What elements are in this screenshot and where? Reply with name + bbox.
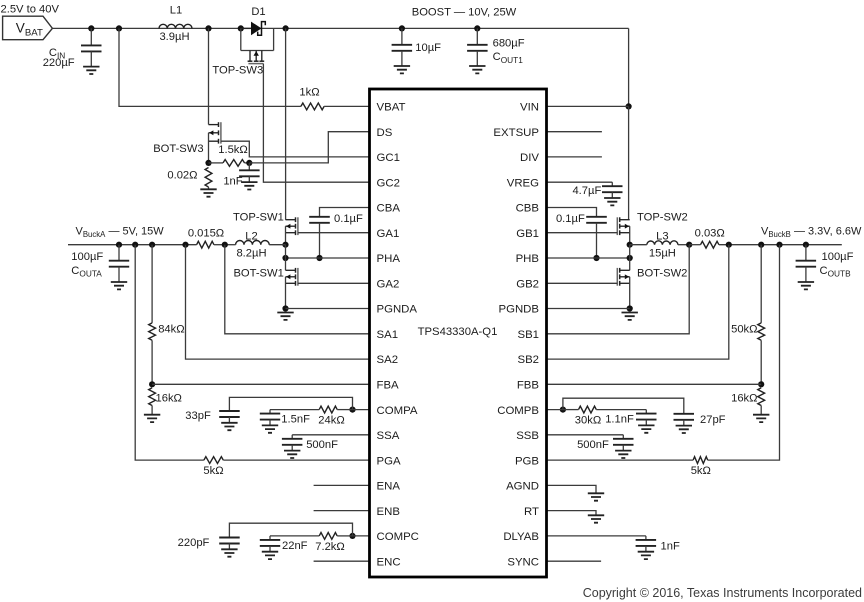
ground: 33pF [221, 423, 237, 430]
svg-text:10µF: 10µF [415, 42, 441, 54]
svg-text:GA1: GA1 [377, 228, 400, 240]
wire: CBB pin to bootstrap cap B [547, 208, 597, 217]
junction: COUTA tap [116, 242, 122, 248]
junction: SA1 sense tap [222, 242, 228, 248]
capacitor CIN 220uF input cap [43, 28, 102, 68]
transistor BOT-SW1 buck A low-side [233, 268, 297, 286]
svg-text:DS: DS [377, 127, 393, 139]
ground: AGND analog ground [588, 493, 604, 500]
svg-text:D1: D1 [251, 6, 265, 18]
transistor TOP-SW1 buck A high-side [233, 212, 298, 236]
svg-text:33pF: 33pF [185, 410, 211, 422]
junction: SA2 sense tap [182, 242, 188, 248]
wire: FBB pin [547, 383, 762, 385]
svg-text:27pF: 27pF [700, 414, 726, 426]
svg-text:0.1µF: 0.1µF [334, 213, 363, 225]
op-amp U1 controller IC TPS43330A-Q1 with pin labels [370, 89, 547, 577]
svg-text:84kΩ: 84kΩ [158, 323, 184, 335]
svg-text:0.02Ω: 0.02Ω [167, 169, 197, 181]
resistor 30k-ohm COMPB [563, 406, 646, 426]
wire: buck A output rail [68, 244, 197, 246]
wire: COMPA top branch to 33pF [229, 397, 352, 411]
junction: PGNDB node [627, 305, 633, 311]
wire: DIV pin stub [547, 156, 602, 158]
svg-text:GB2: GB2 [516, 279, 539, 291]
svg-text:VIN: VIN [520, 102, 539, 114]
wire: VBuckB to PGB resistor [708, 245, 780, 460]
svg-text:1nF: 1nF [661, 541, 680, 553]
wire: boost rail down to TOP-SW2 drain [628, 106, 630, 219]
resistor 0.03-ohm buck B sense [689, 227, 842, 248]
junction: COMPB node [560, 407, 566, 413]
wire: TOP-SW1 source to phase node [285, 226, 287, 245]
svg-text:COMPC: COMPC [377, 531, 419, 543]
wire: COMPC pin to node [353, 535, 370, 537]
junction: DS filter node [246, 160, 252, 166]
junction: PHA row at phase vertical [282, 255, 288, 261]
inductor L1 3.9uH boost inductor [159, 5, 192, 44]
wire: ENB pin stub [314, 510, 370, 512]
capacitor 4.7uF VREG bypass [547, 182, 623, 205]
svg-text:0.1µF: 0.1µF [556, 213, 585, 225]
junction: PHB row at phase vertical [627, 255, 633, 261]
wire: VBAT top rail from tag to boost rail corner at VIN [52, 27, 628, 29]
svg-text:5kΩ: 5kΩ [203, 465, 223, 477]
svg-text:L1: L1 [170, 5, 182, 17]
svg-text:1.5kΩ: 1.5kΩ [218, 144, 248, 156]
wire: RT pin to ground [547, 511, 597, 516]
svg-text:EXTSUP: EXTSUP [493, 127, 539, 139]
svg-text:BOOST — 10V, 25W: BOOST — 10V, 25W [412, 6, 517, 18]
svg-text:GC2: GC2 [377, 177, 400, 189]
svg-text:30kΩ: 30kΩ [575, 414, 601, 426]
wire: ENC pin stub [314, 560, 370, 562]
svg-text:15µH: 15µH [649, 248, 676, 260]
svg-text:VBAT: VBAT [377, 102, 406, 114]
junction: FBA divider tap [149, 242, 155, 248]
wire: PHA pin from phase node [286, 257, 370, 259]
svg-text:SA1: SA1 [377, 329, 399, 341]
wire: DS filter node to DS pin [249, 132, 369, 163]
svg-text:100µF: 100µF [71, 251, 103, 263]
svg-text:1.1nF: 1.1nF [605, 414, 634, 426]
wire: VBAT rail down to VBAT pin row [119, 28, 301, 106]
resistor 16k-ohm FBB lower divider [731, 388, 765, 415]
svg-text:4.7µF: 4.7µF [572, 185, 601, 197]
capacitor COUT1 680uF boost bulk cap [467, 28, 525, 66]
svg-text:0.015Ω: 0.015Ω [188, 227, 224, 239]
junction: phase node A (L2) [282, 242, 288, 248]
junction: VBAT-pin branch tap [116, 25, 122, 31]
ground: 10uF [394, 66, 410, 73]
wire: CBA pin to bootstrap cap A [320, 208, 370, 217]
junction: PGB divider tap [776, 242, 782, 248]
node VBAT input tag [3, 16, 53, 40]
wire: COMPB pin to node [547, 409, 563, 411]
ground: COUTB [798, 282, 814, 289]
svg-text:8.2µH: 8.2µH [236, 248, 266, 260]
wire: EXTSUP pin stub [547, 131, 602, 133]
svg-text:16kΩ: 16kΩ [731, 393, 757, 405]
junction: CIN tap on VBAT rail [88, 25, 94, 31]
wire: GB1 pin to TOP-SW2 gate [547, 232, 618, 234]
svg-text:ENA: ENA [377, 481, 401, 493]
resistor 50k-ohm FBB upper divider [731, 245, 765, 385]
wire: AGND pin to ground [547, 485, 597, 493]
svg-text:SYNC: SYNC [507, 556, 539, 568]
wire: PGNDB pin [547, 308, 630, 310]
svg-text:TOP-SW2: TOP-SW2 [637, 212, 688, 224]
capacitor 500nF SSA soft-start [282, 435, 370, 458]
svg-text:680µF: 680µF [493, 37, 525, 49]
svg-text:1kΩ: 1kΩ [299, 87, 319, 99]
resistor 5k-ohm PGB pull-up [547, 457, 711, 477]
svg-text:PGA: PGA [377, 455, 401, 467]
svg-text:AGND: AGND [506, 481, 539, 493]
wire: TOP-SW2 source to phase node [629, 226, 631, 245]
junction: COMPC node [349, 533, 355, 539]
resistor 1k-ohm VBAT filter [299, 87, 324, 110]
capacitor COUTB 100uF buck B output [796, 245, 854, 282]
wire: BOT-SW3 gate jog to GC1 pin [221, 141, 370, 157]
svg-text:COMPA: COMPA [377, 405, 418, 417]
ground: COUTA [111, 282, 127, 289]
resistor 16k-ohm FBA lower divider [149, 388, 182, 415]
wire: FBA pin [152, 383, 369, 385]
wire: boost rail corner down to VIN pin [628, 28, 630, 106]
transistor BOT-SW2 buck B low-side [617, 268, 687, 286]
junction: COUT1 tap on boost rail [474, 25, 480, 31]
junction: BOT-SW3 source sense node [205, 160, 211, 166]
wire: PHB pin from phase node [547, 257, 630, 259]
capacitor 22nF COMPC series [260, 536, 308, 559]
junction: boost output node (D1 cathode to rail) [283, 25, 289, 31]
svg-text:L3: L3 [656, 231, 668, 243]
capacitor 0.1uF bootstrap B [556, 213, 607, 258]
capacitor 1nF DLYAB delay [547, 536, 680, 559]
junction: 10uF tap on boost rail [399, 25, 405, 31]
junction: D1 anode [238, 25, 244, 31]
wire: phase vertical PHA to BOT-SW1 drain [285, 245, 287, 271]
wire: boost rail down to TOP-SW1 drain [285, 28, 287, 219]
svg-text:COMPB: COMPB [497, 405, 539, 417]
svg-text:TOP-SW3: TOP-SW3 [212, 65, 263, 77]
junction: PGA divider tap [132, 242, 138, 248]
svg-text:RT: RT [524, 506, 539, 518]
svg-text:500nF: 500nF [577, 439, 609, 451]
resistor 1.5k-ohm DS filter [209, 144, 250, 166]
wire: VBuckA to PGA resistor [135, 245, 204, 460]
svg-text:1.5nF: 1.5nF [281, 414, 310, 426]
ground: DS filter cap [241, 182, 257, 189]
wire: SB1 sense line [547, 245, 690, 334]
resistor 5k-ohm PGA pull-up [203, 457, 369, 477]
svg-text:220pF: 220pF [178, 537, 210, 549]
wire: SB2 sense line [547, 245, 729, 359]
resistor 0.015-ohm buck A sense [188, 227, 225, 248]
svg-text:0.03Ω: 0.03Ω [695, 227, 725, 239]
capacitor 27pF COMPB parallel [674, 414, 726, 426]
wire: PGNDA pin [286, 308, 370, 310]
wire: BOT-SW2 source to PGNDB [629, 277, 631, 309]
junction: bootstrap B to PHB [593, 255, 599, 261]
svg-text:50kΩ: 50kΩ [731, 323, 757, 335]
resistor 0.02-ohm boost current sense [167, 168, 212, 188]
junction: FBB node [758, 381, 764, 387]
svg-text:CBB: CBB [516, 203, 539, 215]
svg-text:SA2: SA2 [377, 354, 399, 366]
junction: COUTB tap [803, 242, 809, 248]
wire: switch node down to BOT-SW3 drain [208, 28, 210, 124]
wire: sense resistor to ground [208, 187, 210, 189]
svg-text:L2: L2 [245, 231, 257, 243]
svg-text:GB1: GB1 [516, 228, 539, 240]
svg-text:PGB: PGB [515, 455, 539, 467]
wire: SA1 sense line [225, 245, 370, 334]
svg-text:2.5V to 40V: 2.5V to 40V [1, 4, 60, 16]
svg-text:GC1: GC1 [377, 152, 400, 164]
svg-text:TPS43330A-Q1: TPS43330A-Q1 [418, 326, 498, 338]
svg-text:DLYAB: DLYAB [503, 531, 539, 543]
svg-text:Copyright © 2016, Texas Instru: Copyright © 2016, Texas Instruments Inco… [583, 586, 862, 600]
resistor 84k-ohm FBA upper divider [149, 245, 185, 385]
wire: GB2 pin to BOT-SW2 gate [547, 282, 618, 284]
wire: 1k-ohm to VBAT pin [324, 105, 369, 107]
capacitor 1.5nF COMPA series [260, 410, 310, 433]
svg-text:BOT-SW3: BOT-SW3 [153, 143, 203, 155]
svg-text:22nF: 22nF [282, 540, 308, 552]
wire: SYNC pin stub [547, 560, 602, 562]
capacitor 1nF DS filter [223, 163, 259, 187]
wire: COMPC top branch to 220pF [229, 523, 352, 537]
inductor L3 15uH buck B [630, 231, 690, 260]
wire: VIN pin [547, 105, 629, 107]
svg-text:TOP-SW1: TOP-SW1 [233, 212, 284, 224]
ground: RT [588, 515, 604, 522]
wire: SA2 sense line [186, 245, 370, 359]
wire: GA1 pin to TOP-SW1 gate [298, 232, 370, 234]
svg-text:PGNDA: PGNDA [377, 304, 418, 316]
capacitor 33pF COMPA parallel [185, 410, 239, 423]
svg-text:CBA: CBA [377, 203, 401, 215]
svg-text:5kΩ: 5kΩ [691, 465, 711, 477]
svg-text:ENB: ENB [377, 506, 400, 518]
capacitor 500nF SSB soft-start [547, 435, 634, 458]
ground: PGNDB power ground [622, 313, 638, 320]
wire: ENA pin stub [314, 484, 370, 486]
svg-text:PHB: PHB [516, 253, 539, 265]
wire: TOP-SW3 gate to GC2 pin [263, 64, 369, 183]
svg-text:SSB: SSB [516, 430, 539, 442]
svg-text:3.9µH: 3.9µH [159, 31, 189, 43]
svg-text:FBA: FBA [377, 380, 400, 392]
svg-text:ENC: ENC [377, 556, 401, 568]
svg-text:FBB: FBB [517, 380, 539, 392]
junction: SB2 sense tap [726, 242, 732, 248]
svg-text:7.2kΩ: 7.2kΩ [315, 541, 345, 553]
junction: bootstrap A to PHA [316, 255, 322, 261]
svg-text:VREG: VREG [507, 177, 539, 189]
ground: COUT1 [469, 66, 485, 73]
wire: BOT-SW1 source to PGNDA [285, 277, 287, 309]
junction: VIN pin / TOP-SW2 drain branch [626, 103, 632, 109]
svg-text:GA2: GA2 [377, 279, 400, 291]
svg-text:SB1: SB1 [517, 329, 539, 341]
transistor TOP-SW2 buck B high-side [617, 212, 687, 236]
svg-text:1nF: 1nF [223, 175, 242, 187]
resistor 24k-ohm COMPA [270, 406, 353, 426]
junction: COMPA node [349, 407, 355, 413]
capacitor 10uF boost output [392, 28, 442, 66]
capacitor COUTA 100uF buck A output [71, 245, 129, 282]
wire: phase vertical PHB to BOT-SW2 drain [629, 245, 631, 271]
transistor TOP-SW3 boost disconnect switch (parallel with D1) [212, 28, 273, 76]
junction: boost switch node (L1 / BOT-SW3 drain / D1 anode) [205, 25, 211, 31]
svg-text:24kΩ: 24kΩ [318, 414, 344, 426]
junction: FBB divider tap [758, 242, 764, 248]
svg-text:500nF: 500nF [306, 439, 338, 451]
inductor L2 8.2uH buck A [225, 231, 286, 260]
svg-text:16kΩ: 16kΩ [156, 393, 182, 405]
svg-text:PGNDB: PGNDB [498, 304, 539, 316]
wire: COMPA pin to node [353, 409, 370, 411]
capacitor 220pF COMPC parallel [178, 537, 240, 550]
svg-text:BOT-SW2: BOT-SW2 [637, 268, 687, 280]
ground: PGNDA power ground [277, 313, 293, 320]
capacitor 1.1nF COMPB series [605, 410, 656, 433]
ground: 27pF [676, 426, 692, 433]
svg-text:SSA: SSA [377, 430, 400, 442]
svg-text:220µF: 220µF [43, 57, 75, 69]
resistor 7.2k-ohm COMPC [270, 533, 353, 554]
transistor BOT-SW3 boost low-side switch [153, 122, 221, 163]
ground: FBA divider [144, 415, 160, 422]
svg-text:PHA: PHA [377, 253, 401, 265]
svg-text:DIV: DIV [520, 152, 539, 164]
svg-text:SB2: SB2 [517, 354, 539, 366]
wire: COMPB top branch to 27pF [563, 398, 684, 414]
capacitor 0.1uF bootstrap A [309, 213, 363, 258]
junction: SB1 sense tap [686, 242, 692, 248]
wire: GA2 pin to BOT-SW1 gate [298, 282, 370, 284]
junction: FBA node [149, 381, 155, 387]
svg-text:BOT-SW1: BOT-SW1 [233, 268, 283, 280]
ground: 220pF [221, 549, 237, 556]
ground: CIN [83, 67, 99, 74]
junction: phase node B (L3) [627, 242, 633, 248]
ground: FBB divider [753, 415, 769, 422]
diode D1 boost rectifier (schottky) [241, 6, 266, 35]
svg-text:100µF: 100µF [822, 251, 854, 263]
ground: boost sense resistor [200, 189, 216, 196]
junction: PGNDA node [282, 305, 288, 311]
